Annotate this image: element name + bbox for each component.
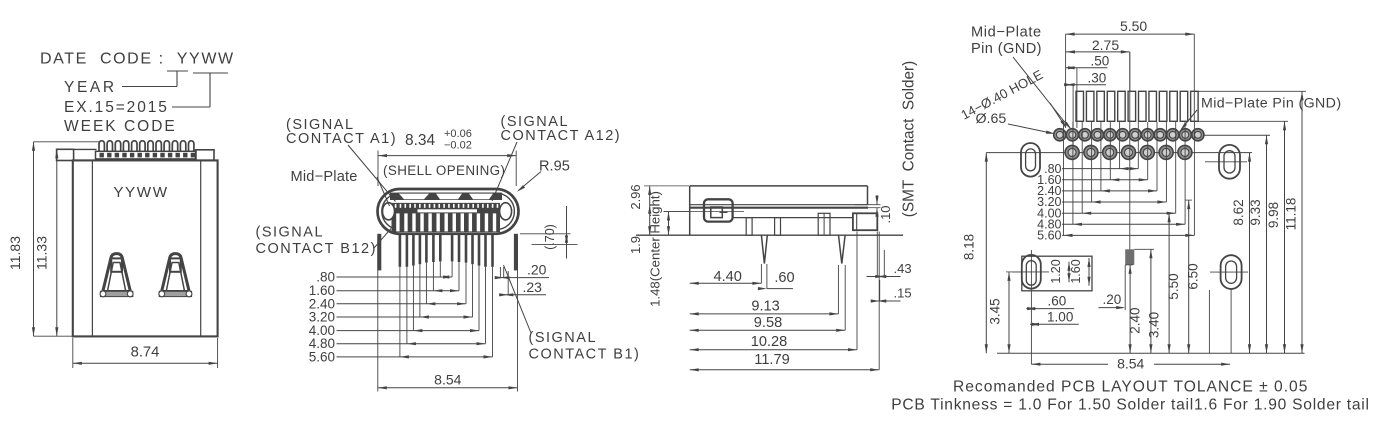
through-hole leg 1 (side) — [761, 235, 767, 263]
svg-text:8.74: 8.74 — [131, 345, 160, 361]
leader hole diameter — [1008, 124, 1051, 133]
dim .50 pcb — [1076, 68, 1078, 128]
dim 9.13 — [837, 265, 839, 314]
dim 9.33 — [1266, 135, 1268, 353]
rear view pin base band — [96, 151, 197, 159]
rear view inner wall right — [200, 161, 202, 336]
svg-text:4.40: 4.40 — [713, 269, 741, 285]
front view tongue block — [392, 203, 501, 232]
rear view right ear — [196, 150, 214, 161]
bottom-right slot center line — [1210, 271, 1248, 273]
slot center lines — [1012, 271, 1049, 273]
svg-text:.60: .60 — [774, 270, 794, 286]
top-left slot outer — [1021, 143, 1040, 177]
svg-text:.20: .20 — [527, 262, 547, 278]
shell solder leg right (front view) — [514, 234, 518, 271]
svg-text:1.48(Center Height): 1.48(Center Height) — [648, 191, 663, 307]
svg-text:.10: .10 — [878, 205, 893, 223]
contact row A ticks — [395, 204, 397, 208]
svg-text:10.28: 10.28 — [751, 334, 788, 350]
bottom-right slot outer — [1221, 255, 1242, 289]
dim 8.18 — [985, 153, 987, 354]
svg-text:EX.15=2015: EX.15=2015 — [64, 99, 169, 116]
svg-text:11.83: 11.83 — [7, 236, 23, 270]
svg-text:.43: .43 — [894, 261, 912, 276]
dim 8.34 shell opening — [377, 151, 379, 187]
side view center line — [664, 211, 745, 213]
svg-text:8.54: 8.54 — [434, 371, 461, 387]
bottom-right slot inner — [1226, 261, 1237, 283]
side view retention clip — [704, 199, 733, 221]
svg-text:(.70): (.70) — [543, 224, 557, 250]
side view shell upper line — [690, 204, 868, 206]
svg-text:R.95: R.95 — [539, 159, 570, 175]
dim 1.48 center height — [664, 211, 690, 213]
flange step line — [73, 148, 96, 150]
svg-text:.23: .23 — [523, 279, 543, 295]
hole row line upper — [1053, 134, 1270, 136]
rear view left ear — [57, 149, 74, 160]
svg-text:Mid−Plate: Mid−Plate — [291, 169, 358, 185]
svg-text:.50: .50 — [1091, 54, 1110, 69]
rear view shell body — [73, 160, 218, 336]
front view top vent band — [390, 193, 502, 200]
svg-text:YYWW: YYWW — [113, 184, 168, 201]
svg-text:(SMT Contact Solder): (SMT Contact Solder) — [901, 61, 918, 217]
front view inner shell stadium — [382, 193, 515, 229]
dim 1.20 — [1068, 262, 1070, 283]
svg-text:YEAR: YEAR — [64, 79, 117, 96]
svg-text:3.40: 3.40 — [1147, 312, 1162, 338]
top-right slot inner — [1224, 151, 1235, 173]
svg-text:2.96: 2.96 — [628, 184, 643, 209]
dim 8.74 — [72, 338, 74, 368]
side foot 1 — [746, 218, 752, 236]
svg-text:PCB Tinkness = 1.0 For 1.50 So: PCB Tinkness = 1.0 For 1.50 Solder tail1… — [891, 397, 1369, 414]
rear view inner wall left — [91, 161, 93, 336]
svg-text:.15: .15 — [894, 286, 912, 301]
rear view crown pins — [99, 141, 104, 152]
svg-text:Pin (GND): Pin (GND) — [971, 41, 1042, 57]
top-right slot center line — [1205, 161, 1247, 163]
leader mid-plate pin left — [1013, 57, 1063, 120]
svg-text:.30: .30 — [1088, 70, 1107, 85]
left shell ear (mid-plate) — [383, 203, 395, 220]
svg-text:9.33: 9.33 — [1248, 199, 1263, 225]
leader B12 — [374, 229, 391, 249]
svg-text:1.00: 1.00 — [1047, 310, 1073, 325]
contact row B comb — [396, 213, 399, 231]
svg-text:2.75: 2.75 — [1092, 37, 1119, 53]
front view outer shell stadium — [378, 189, 519, 234]
dim 11.33 — [56, 149, 58, 336]
dim .60 side — [766, 264, 768, 289]
svg-text:Mid−Plate: Mid−Plate — [971, 25, 1042, 41]
plated holes row 2 — [1065, 145, 1079, 159]
dim 10.28 — [856, 232, 858, 350]
leader B1 — [504, 265, 532, 333]
right shell ear (mid-plate) — [500, 203, 512, 220]
svg-text:Ø.65: Ø.65 — [976, 111, 1007, 127]
dim 11.79 — [878, 232, 880, 370]
svg-text:2.40: 2.40 — [1128, 307, 1143, 333]
svg-text:DATE CODE : YYWW: DATE CODE : YYWW — [40, 51, 235, 68]
solder leg left (rear view) — [103, 254, 131, 292]
dim 1.60 slot — [1088, 258, 1090, 286]
svg-text:CONTACT A1): CONTACT A1) — [286, 131, 397, 147]
solder leg right (rear view) — [162, 254, 190, 292]
side foot 2 — [775, 218, 781, 236]
svg-text:1.9: 1.9 — [628, 236, 643, 254]
dim .15 — [879, 280, 881, 301]
side view shell lower line — [690, 207, 868, 209]
svg-text:(SIGNAL: (SIGNAL — [529, 330, 598, 346]
dim (.70) — [520, 233, 571, 235]
through-hole leg 2 (side) — [839, 235, 846, 263]
svg-text:9.98: 9.98 — [1266, 202, 1281, 228]
dim 1.9 — [648, 205, 651, 214]
dim 3.40 pcb — [1134, 248, 1154, 250]
dim 11.83 — [34, 141, 100, 143]
dim 3.45 — [1006, 271, 1021, 273]
svg-text:CONTACT A12): CONTACT A12) — [501, 128, 622, 144]
shell solder leg left (front view) — [377, 234, 381, 271]
leader hole note — [1050, 103, 1065, 126]
pcb pads row — [1076, 91, 1084, 121]
svg-text:−0.02: −0.02 — [444, 140, 472, 152]
dim .30 pcb — [1072, 85, 1074, 150]
dim 9.98 — [1198, 120, 1288, 122]
dim 8.54 front view — [377, 236, 379, 392]
pcb base line — [636, 234, 903, 236]
leader R.95 — [519, 172, 542, 191]
svg-text:5.50: 5.50 — [1120, 18, 1147, 34]
side view left edge — [689, 186, 691, 235]
svg-text:(SHELL OPENING): (SHELL OPENING) — [383, 163, 505, 178]
svg-text:.60: .60 — [1048, 294, 1067, 309]
svg-text:(SIGNAL: (SIGNAL — [256, 225, 325, 241]
dim 8.62 — [1249, 153, 1251, 354]
side view right edge — [867, 186, 869, 205]
tongue white stripe — [418, 209, 478, 212]
svg-text:Mid−Plate Pin (GND): Mid−Plate Pin (GND) — [1201, 96, 1341, 112]
svg-text:8.18: 8.18 — [962, 234, 977, 260]
center pad — [1125, 249, 1134, 265]
dim .43 — [876, 232, 878, 277]
svg-text:11.18: 11.18 — [1284, 198, 1299, 231]
svg-text:9.58: 9.58 — [754, 315, 782, 331]
dim .10 — [855, 204, 881, 206]
svg-text:CONTACT B1): CONTACT B1) — [529, 347, 641, 363]
svg-text:8.54: 8.54 — [1117, 356, 1144, 372]
dim 2.40 pcb — [1125, 264, 1133, 266]
svg-text:11.33: 11.33 — [34, 236, 50, 270]
gap above contact row A — [391, 200, 501, 203]
dim 6.50 pcb — [1185, 199, 1192, 201]
svg-text:8.34: 8.34 — [405, 132, 436, 149]
dim 2.96 — [644, 185, 689, 187]
dim 5.50 pcb — [1065, 34, 1067, 128]
dim 11.18 — [1198, 90, 1306, 92]
svg-text:1.20: 1.20 — [1049, 259, 1063, 283]
leader mid-plate — [377, 177, 390, 206]
top-left slot inner — [1026, 149, 1036, 171]
leader A12 — [492, 142, 517, 201]
mid-plate pad rectangle — [1022, 256, 1092, 291]
svg-text:8.62: 8.62 — [1231, 199, 1246, 225]
svg-text:9.13: 9.13 — [751, 299, 779, 315]
leader mid-plate pin right — [1182, 110, 1198, 129]
svg-text:11.79: 11.79 — [754, 352, 789, 368]
svg-text:WEEK CODE: WEEK CODE — [64, 118, 177, 135]
svg-text:.20: .20 — [1103, 292, 1122, 307]
mid-plate slot outer (bottom-left) — [1022, 255, 1041, 289]
svg-text:3.45: 3.45 — [988, 298, 1003, 324]
svg-text:Recomanded PCB LAYOUT TOLANCE: Recomanded PCB LAYOUT TOLANCE ± 0.05 — [953, 379, 1308, 396]
leader A1 — [348, 145, 396, 202]
svg-text:5.60: 5.60 — [1037, 229, 1061, 243]
side foot 3 — [818, 213, 830, 235]
svg-text:5.60: 5.60 — [309, 349, 335, 364]
hole row line lower — [986, 152, 1252, 154]
svg-text:6.50: 6.50 — [1186, 263, 1201, 289]
dim 4.40 — [760, 264, 762, 283]
top-right slot outer — [1219, 145, 1240, 179]
side view underside line — [734, 217, 853, 219]
svg-text:+0.06: +0.06 — [444, 128, 472, 140]
dim 2.75 pcb — [1129, 52, 1131, 91]
side SMT pad block — [853, 213, 877, 230]
pcb center line — [1129, 52, 1131, 265]
svg-text:5.50: 5.50 — [1166, 273, 1181, 299]
leader year to YY — [122, 86, 177, 88]
extension line right of pads — [1208, 290, 1210, 353]
svg-text:1.60: 1.60 — [1069, 259, 1083, 283]
dim 5.50 vertical pcb — [1166, 212, 1172, 214]
leader ex/week to WW — [172, 106, 210, 108]
pcb bottom extension line — [997, 352, 1305, 354]
side view top line — [690, 185, 868, 187]
dim 8.54 pcb — [1031, 363, 1108, 365]
dim 9.58 — [844, 265, 846, 330]
mid-plate slot inner (bottom-left) — [1026, 261, 1036, 286]
svg-text:CONTACT B12): CONTACT B12) — [256, 241, 377, 257]
contact solder tails (front view) — [399, 233, 402, 267]
plated holes row 1 — [1054, 129, 1066, 141]
